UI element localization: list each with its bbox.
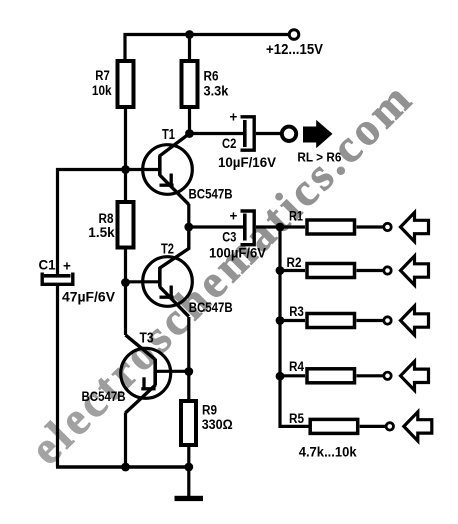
wire R2 left [280,269,305,272]
wire R4 right [357,374,384,377]
svg-text:10µF/16V: 10µF/16V [218,155,276,170]
svg-text:C3: C3 [222,230,236,245]
svg-text:+: + [230,209,238,224]
svg-text:BC547B: BC547B [82,389,126,404]
svg-text:R9: R9 [202,403,217,418]
wire C3 left [189,225,243,228]
svg-text:R5: R5 [289,411,304,426]
wire T3 emitter column [124,413,127,468]
svg-text:1.5k: 1.5k [88,225,115,240]
node R6 / T1 collector / C2 [185,129,194,138]
input terminal R1 [384,223,391,230]
resistor R4 [289,359,355,383]
resistor R7 [92,61,134,107]
node rail / R9 / ground [184,463,193,472]
svg-text:R1: R1 [289,208,303,223]
node T2 emitter / T3 base / R9 [184,367,193,376]
resistor R9 [181,401,233,445]
input terminal R4 [384,372,391,379]
svg-text:+: + [230,110,238,125]
input arrow R1 [401,213,429,242]
output arrow RL [297,120,341,164]
wire C1 to bottom rail [56,286,59,467]
wire R6 top riser [188,35,191,60]
wire C2 to output terminal [256,132,280,135]
wire R8 bottom to T3 collector [124,250,127,336]
resistor R3 [289,304,354,328]
svg-text:4.7k...10k: 4.7k...10k [299,444,357,460]
svg-text:100µF/6V: 100µF/6V [209,246,266,261]
wire C3 to bus [256,225,280,228]
wire T1 emitter column to node [187,204,190,227]
svg-text:+12...15V: +12...15V [266,41,323,58]
wire R1 left [280,225,305,228]
wire T3 base [155,370,189,373]
svg-text:BC547B: BC547B [189,300,233,315]
wire T1 base [126,168,159,171]
capacitor C2 [218,110,276,171]
node R7 / T1 base [121,165,130,174]
wire input bus vertical [280,227,309,426]
wire R6 bottom [188,109,191,134]
svg-text:R2: R2 [287,255,302,270]
wire top supply rail [125,35,289,60]
wire R2 right [357,269,384,272]
svg-text:T3: T3 [140,331,154,347]
wire R5 right [360,425,386,428]
svg-text:R8: R8 [99,211,114,226]
wire R4 left [280,374,305,377]
transistor T3 [82,331,171,413]
input arrow R2 [401,256,429,285]
node T1 emitter / C3 / T2 collector [184,223,193,232]
node top rail / R6 [185,30,194,39]
node rail / T3 emitter [121,463,130,472]
svg-text:C2: C2 [222,136,236,151]
svg-text:330Ω: 330Ω [202,417,233,432]
node R8 / T2 base [121,278,130,287]
resistor R8 [88,202,133,248]
wire R9 bottom [187,447,190,467]
svg-text:10k: 10k [92,83,112,98]
svg-text:R6: R6 [204,68,219,83]
wire R7 bottom to R8 top [124,109,127,200]
input terminal R2 [384,267,391,274]
supply terminal +12...15V [266,30,323,59]
resistor R5 [289,411,358,460]
svg-text:+: + [63,259,71,274]
svg-text:RL > R6: RL > R6 [297,149,341,164]
wire C2 left [190,132,244,135]
input terminal R5 [386,423,393,430]
capacitor C1 [39,258,116,305]
resistor R6 [182,61,229,107]
capacitor C3 [209,209,266,261]
resistor R1 [289,208,355,234]
output terminal circle [282,127,296,141]
svg-text:R7: R7 [95,68,110,83]
svg-text:47µF/6V: 47µF/6V [62,290,115,305]
wire T2 base [126,280,159,283]
wire R1 right [357,225,384,228]
transistor T2 [143,227,233,317]
resistor R2 [287,255,355,278]
input arrow R5 [404,412,432,441]
svg-text:T1: T1 [162,127,175,143]
svg-text:R4: R4 [289,359,304,374]
svg-text:3.3k: 3.3k [204,83,229,98]
wire T2 emitter column [187,317,190,399]
input arrow R4 [401,361,429,390]
wire R3 right [357,319,384,322]
input arrow R3 [401,306,429,335]
svg-text:R3: R3 [289,304,304,319]
node bus / R3 [276,316,285,325]
wire R3 left [280,319,305,322]
wire ground stub [187,467,190,497]
svg-text:BC547B: BC547B [189,187,233,202]
input terminal R3 [384,317,391,324]
node bus / R4 [276,372,285,381]
transistor T1 [143,127,233,205]
svg-text:C1: C1 [39,258,56,273]
wire bottom rail [56,465,189,468]
node bus / R2 [276,266,285,275]
svg-text:T2: T2 [161,242,174,258]
ground [175,496,204,501]
node C3 / R1 bus [276,223,285,232]
wire left branch to C1 [58,170,126,275]
